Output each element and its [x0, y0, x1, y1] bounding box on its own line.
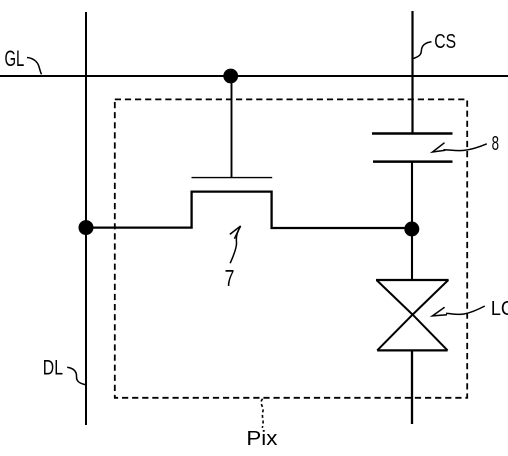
svg-text:CS: CS — [434, 30, 456, 53]
junction dot on GL at gate — [223, 69, 238, 84]
transistor 7 gate plate — [192, 177, 273, 179]
svg-text:7: 7 — [225, 265, 235, 291]
LC element (bowtie) top bar — [376, 279, 449, 281]
svg-text:8: 8 — [492, 133, 499, 155]
svg-text:DL: DL — [43, 357, 63, 380]
wire below LC — [411, 350, 413, 424]
transistor 7 gate wire — [231, 80, 233, 178]
leader LC (arrow to bowtie) — [446, 306, 485, 314]
leader Pix (dashed squiggle) — [261, 399, 263, 428]
leader DL — [67, 367, 85, 384]
LC element bottom bar — [377, 349, 447, 351]
leader 8 (arrow to capacitor) — [444, 144, 487, 151]
leader CS — [414, 42, 432, 59]
svg-text:GL: GL — [5, 46, 25, 71]
pixel boundary Pix (dashed box) — [115, 99, 467, 397]
leader GL — [27, 58, 42, 75]
junction dot storage node — [404, 222, 419, 237]
LC element right upper slant — [413, 280, 449, 315]
capacitor 8 top plate — [372, 132, 453, 135]
transistor 7 source-drain path with pixel wire — [86, 192, 412, 228]
wire DL data line (vertical) — [85, 12, 87, 425]
svg-text:Pix: Pix — [246, 428, 277, 450]
leader 7 (arrow to transistor) — [230, 230, 238, 263]
svg-text:LC: LC — [491, 298, 508, 320]
wire CS storage line (vertical, upper) — [411, 11, 413, 134]
LC element left lower slant — [377, 315, 412, 351]
wire GL gate line (horizontal) — [0, 75, 508, 77]
LC element left upper slant — [377, 280, 413, 315]
capacitor 8 bottom plate — [373, 160, 453, 163]
wire storage node vertical — [411, 162, 413, 280]
LC element right lower slant — [413, 315, 448, 351]
junction dot on DL at pixel wire — [79, 220, 94, 235]
